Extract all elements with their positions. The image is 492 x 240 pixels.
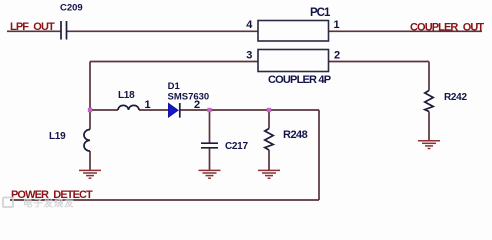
svg-text:R242: R242 [444, 92, 467, 103]
svg-text:SMS7630: SMS7630 [168, 92, 210, 103]
svg-text:PC1: PC1 [310, 7, 331, 19]
svg-text:2: 2 [334, 50, 340, 62]
svg-text:2: 2 [194, 99, 200, 111]
svg-text:4: 4 [246, 19, 253, 31]
svg-text:D1: D1 [168, 81, 181, 92]
svg-text:L18: L18 [118, 90, 135, 101]
svg-text:COUPLER_OUT: COUPLER_OUT [410, 22, 484, 34]
svg-text:LPF_OUT: LPF_OUT [10, 21, 55, 33]
svg-text:电子发烧友: 电子发烧友 [23, 198, 75, 210]
svg-text:L19: L19 [49, 131, 66, 142]
svg-text:R248: R248 [283, 129, 308, 141]
svg-text:1: 1 [144, 99, 150, 111]
svg-text:3: 3 [246, 50, 252, 62]
svg-text:C217: C217 [225, 141, 248, 152]
svg-text:1: 1 [333, 19, 339, 31]
svg-text:COUPLER 4P: COUPLER 4P [268, 74, 331, 86]
svg-text:C209: C209 [60, 2, 83, 13]
